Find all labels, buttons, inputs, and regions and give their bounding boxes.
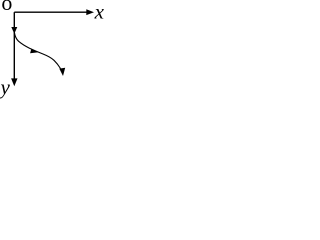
- trajectory curve: [14, 33, 60, 69]
- svg-text:o: o: [1, 0, 12, 15]
- svg-text:y: y: [0, 75, 11, 99]
- trajectory mid arrow: [30, 49, 38, 54]
- trajectory end arrow: [59, 68, 65, 76]
- x-axis arrowhead: [86, 9, 94, 15]
- y-axis: [13, 12, 15, 79]
- trajectory arrow on y-axis (downward): [11, 27, 17, 34]
- x-axis: [14, 11, 88, 13]
- y-axis arrowhead: [11, 78, 17, 86]
- svg-text:x: x: [94, 0, 104, 23]
